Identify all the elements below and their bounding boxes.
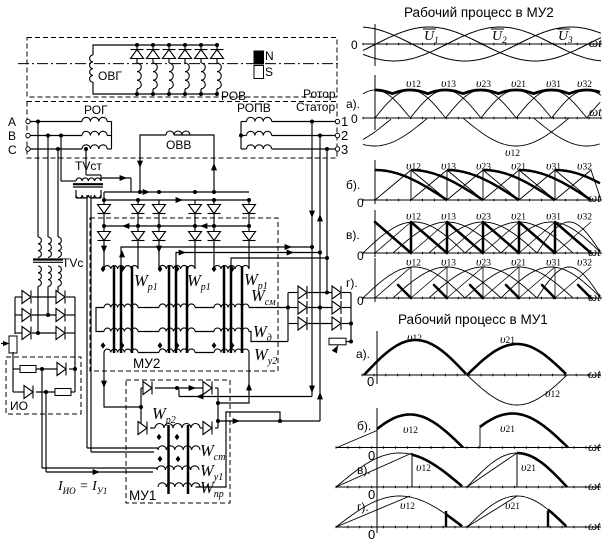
- diode row2 VD26: [248, 226, 250, 232]
- MU1 dashed enclosure: [126, 380, 230, 503]
- svg-text:1: 1: [341, 114, 348, 129]
- upper bus wire 1: [104, 191, 249, 193]
- chart a) thick envelope: [375, 90, 600, 94]
- right bridge rails: [287, 293, 289, 342]
- right bridge diode VR2b: [332, 301, 341, 314]
- tap wire 2 down: [318, 134, 322, 138]
- upper bus wire 2: [104, 199, 249, 201]
- svg-text:ωt: ωt: [588, 439, 601, 454]
- IO top row wire: [13, 368, 20, 370]
- svg-text:Ротор: Ротор: [303, 87, 336, 101]
- ROG star-point rail: [111, 122, 113, 150]
- svg-text:3: 3: [341, 142, 348, 157]
- left bridge diode VL1a: [22, 291, 31, 304]
- chart v) thin sine humps: [363, 222, 465, 253]
- svg-text:г).: г).: [346, 276, 358, 290]
- MU1 g) thin chord 2: [467, 496, 517, 527]
- MU2 core bars: [113, 266, 116, 353]
- Wp2 diode top-left: [143, 382, 152, 395]
- svg-text:0: 0: [351, 112, 358, 126]
- svg-text:ωt: ωt: [588, 190, 601, 205]
- diode row1 VD15: [213, 200, 215, 205]
- left bridge row 1 wires: [15, 296, 22, 298]
- MU1 b) vertical thin line: [479, 425, 481, 448]
- magnet pole N (filled): [254, 51, 264, 64]
- MU1 chart a) axes: [362, 374, 601, 376]
- MU1 v) vertical line 2: [516, 453, 518, 487]
- diode row2 VD23: [158, 226, 160, 232]
- Wp2 diode top-right: [203, 382, 212, 395]
- svg-text:ωt: ωt: [588, 366, 601, 381]
- chart1 axes: [363, 43, 601, 45]
- IO diode VD-io2: [24, 386, 33, 399]
- Wp2 bottom wire: [138, 427, 141, 429]
- TVst secondary lead wires down: [86, 195, 88, 448]
- left rectifier bridge rails: [14, 297, 16, 333]
- svg-text:0: 0: [357, 196, 364, 210]
- svg-text:ωt: ωt: [588, 478, 601, 493]
- svg-text:0: 0: [367, 374, 374, 389]
- svg-text:TVc: TVc: [62, 256, 83, 270]
- terminal 2: [335, 133, 339, 137]
- svg-text:В: В: [8, 129, 16, 143]
- MU2 working winding row Wp1: [104, 266, 138, 269]
- MU1 chart g) axes: [336, 526, 601, 528]
- chart v) thick sawtooth: [375, 222, 411, 253]
- MU1 winding Wy1: [157, 466, 199, 470]
- IO bottom row wire: [13, 391, 24, 393]
- ROG phase coil 3: [82, 145, 107, 149]
- Wy2 polarity diamonds: [101, 342, 106, 349]
- right bridge diode VR3a: [298, 317, 307, 330]
- svg-text:Рабочий процесс в МУ1: Рабочий процесс в МУ1: [398, 312, 548, 327]
- DC return wire from stator phase 1: [179, 396, 312, 398]
- svg-text:ωt: ωt: [588, 518, 601, 533]
- Wy2 left lead down: [104, 353, 141, 408]
- MU1 v) thin hump 2: [467, 453, 567, 487]
- chart1 sine U3: [363, 27, 601, 61]
- svg-text:в).: в).: [346, 228, 360, 242]
- ROG phase coil 2: [82, 131, 107, 135]
- right bridge diode VR1a: [298, 286, 307, 299]
- right bridge row 2 wires: [288, 307, 298, 309]
- MU1 a) thick hump v21: [467, 344, 566, 375]
- left bridge diode VL1b: [56, 291, 65, 304]
- right bridge diode VR1b: [332, 286, 341, 299]
- tap C to TVc: [56, 147, 60, 151]
- MU1 v) thick descent 2: [517, 453, 567, 487]
- IO dashed enclosure: [6, 357, 81, 414]
- arrow on bus: [143, 189, 150, 195]
- phase wire A: [31, 121, 83, 123]
- load tap wires to stator: [121, 247, 312, 266]
- exciter winding OVV coil: [166, 131, 190, 135]
- Wp2 diode bottom-right: [203, 422, 212, 435]
- MU1 winding Wpr: [158, 483, 200, 487]
- diode row2 VD21: [103, 226, 105, 232]
- left bridge row 3 wires: [15, 332, 22, 334]
- chart g) axes: [363, 297, 601, 299]
- TVc primary coils: [38, 237, 41, 257]
- ROV winding coil 3: [168, 59, 170, 64]
- MU1 g) thin hump 1: [336, 496, 462, 527]
- MU1 winding Wst: [158, 446, 200, 450]
- MU1 g) thick wedge 2: [547, 511, 549, 527]
- arrow down to winding: [101, 246, 107, 253]
- MU1 chart v) axes: [336, 486, 601, 488]
- MU2 control winding row Wy2: [104, 349, 138, 352]
- chart b) thick arcs: [375, 170, 447, 200]
- AC feed wire to Wp2 right rail: [216, 419, 220, 423]
- Wsm left lead: [96, 308, 104, 332]
- diode row2 VD22: [137, 226, 139, 232]
- svg-text:РОГ: РОГ: [84, 103, 108, 117]
- tap wire 3 down: [325, 147, 329, 151]
- TVst secondary feed to Wst: [87, 447, 158, 449]
- left bridge diode VL3a: [22, 327, 31, 340]
- svg-text:0: 0: [357, 249, 364, 263]
- MU1 v) thin chord 1: [336, 453, 412, 487]
- chart a) negative tail of v23 at right: [534, 118, 600, 146]
- svg-text:а).: а).: [356, 347, 370, 361]
- svg-text:ОВГ: ОВГ: [98, 69, 122, 83]
- tap wire 1 down: [310, 120, 314, 124]
- svg-text:0: 0: [351, 38, 358, 52]
- Wsm right lead to right bridge: [249, 307, 288, 309]
- svg-text:ОВВ: ОВВ: [166, 138, 191, 152]
- svg-text:TVст: TVст: [75, 159, 102, 173]
- right bridge row 3 wires: [288, 323, 298, 325]
- chart v) thin rising lattice: [375, 222, 411, 253]
- right bridge row 1 wires: [288, 292, 298, 294]
- stator dashed enclosure: [27, 102, 337, 159]
- right potentiometer resistor: [329, 338, 346, 345]
- right rail down into IO: [74, 333, 76, 369]
- ROV winding coil 1: [136, 59, 138, 64]
- ROV bottom bus wire: [131, 93, 217, 95]
- TVc secondary leads: [37, 286, 39, 333]
- Wp2 winding coil: [150, 427, 155, 429]
- MU1 v) thin hump 1: [336, 453, 462, 487]
- MU2 dashed enclosure: [90, 218, 278, 371]
- chart g) thick segments: [398, 285, 411, 298]
- MU2 bias winding row Wsm: [104, 304, 138, 307]
- terminal 1: [335, 119, 339, 123]
- potentiometer: [9, 336, 17, 353]
- tap B to TVst: [59, 134, 63, 138]
- MU1 v) thick descent 1: [412, 455, 462, 487]
- diode row2 VD25: [213, 226, 215, 232]
- ROV diode VD1: [136, 45, 138, 49]
- ROPV phase coil 1: [247, 117, 272, 121]
- MU1 chart b) axes: [336, 447, 601, 449]
- MU1 core bars: [167, 425, 170, 494]
- svg-text:г).: г).: [357, 500, 369, 514]
- arrow up on OVV right lead: [211, 163, 217, 170]
- Wpr lead loop to right: [196, 412, 281, 487]
- tap B to TVc: [46, 134, 50, 138]
- IO output wires: [40, 367, 44, 371]
- ROV diode VD2: [152, 45, 154, 49]
- Wp2 right rail: [217, 388, 219, 428]
- svg-text:0: 0: [368, 527, 375, 542]
- MU2 damper winding row Wd: [104, 328, 138, 331]
- Wp2 polarity diamonds: [157, 434, 162, 441]
- ROV top bus wire: [131, 44, 217, 46]
- chart1 sine U1: [363, 27, 601, 61]
- ROV diode VD4: [184, 45, 186, 49]
- IO diode VD-io1: [57, 363, 66, 376]
- MU1 b) thick hump v12: [377, 415, 463, 448]
- chart v) axes: [363, 252, 601, 254]
- TVc secondary coils: [38, 266, 41, 286]
- diode row1 VD11: [103, 200, 105, 205]
- ROG phase coil 1: [82, 117, 107, 121]
- Wy1 polarity diamonds: [158, 456, 163, 463]
- right bridge phase dots: [325, 291, 329, 295]
- phase wire B: [31, 135, 83, 137]
- rotor dashed enclosure: [27, 38, 337, 98]
- svg-text:0: 0: [368, 487, 375, 502]
- arrow down on OVV left lead: [137, 161, 143, 168]
- chart g) thin lattice: [375, 267, 411, 298]
- chart b) thin lattice: [375, 170, 411, 200]
- tap A to TVc: [36, 120, 40, 124]
- MU1 v) thin chord 2: [467, 453, 517, 487]
- MU1 g) thick wedge 1: [445, 511, 447, 527]
- svg-text:ИО: ИО: [10, 399, 28, 413]
- chart b) axes: [363, 199, 601, 201]
- tap C to TVst: [84, 147, 88, 151]
- Wd right lead: [249, 332, 288, 342]
- svg-text:РОПВ: РОПВ: [237, 101, 271, 115]
- Wy2 right lead down to Wp2 rectifier: [218, 353, 249, 404]
- svg-text:2: 2: [341, 128, 348, 143]
- MU1 g) thin hump 2: [467, 496, 567, 527]
- diode row1 VD13: [158, 200, 160, 205]
- arrow right on TVst output wire: [101, 177, 131, 179]
- svg-text:N: N: [265, 49, 274, 63]
- MU2 mid bus: [104, 225, 249, 227]
- Wp1 polarity diamonds: [101, 266, 106, 273]
- left bridge diode VL2a: [22, 309, 31, 322]
- IO resistor R1: [20, 366, 36, 373]
- right bridge diode VR2a: [298, 301, 307, 314]
- svg-text:а).: а).: [346, 97, 360, 111]
- Wp2 diode bottom-left: [138, 422, 147, 435]
- MU1 b) thin rising line: [337, 431, 377, 448]
- field winding OVG coil: [90, 55, 93, 82]
- TVst core: [73, 183, 103, 185]
- Wp2 left rail: [140, 388, 142, 428]
- ROV diode VD3: [168, 45, 170, 49]
- diode row1 VD16: [248, 200, 250, 205]
- chart a) thin line voltage sines: [363, 90, 410, 117]
- svg-text:Рабочий процесс в МУ2: Рабочий процесс в МУ2: [404, 5, 554, 20]
- ROV diode VD5: [200, 45, 202, 49]
- chart1 sine U2: [363, 27, 601, 61]
- diode row1 VD14: [194, 200, 196, 205]
- right bridge diode VR3b: [332, 317, 341, 330]
- left bridge row 2 wires: [15, 314, 22, 316]
- ROV diode VD6: [216, 45, 218, 49]
- svg-text:А: А: [8, 115, 16, 129]
- MU1 v) vertical line 1: [411, 453, 413, 487]
- chart a) negative half of v12: [463, 118, 569, 146]
- terminal 3: [335, 147, 339, 151]
- svg-text:МУ2: МУ2: [133, 356, 160, 371]
- potentiometer wire down: [14, 333, 16, 334]
- machine axis dash-dot line: [18, 63, 341, 65]
- ROV winding coil 2: [152, 59, 154, 64]
- Wp2 bridge top wire: [141, 387, 143, 389]
- ROPV phase coil 3: [247, 145, 272, 149]
- left bridge diode VL2b: [56, 309, 65, 322]
- left bridge diode VL3b: [56, 327, 65, 340]
- IO resistor R2: [55, 389, 71, 396]
- svg-text:0: 0: [357, 294, 364, 308]
- ROV winding coil 4: [184, 59, 186, 64]
- MU1 g) thin chord 1: [336, 496, 410, 527]
- ROV winding coil 6: [216, 59, 218, 64]
- MU1 b) thick hump v21: [480, 414, 568, 448]
- ROV winding coil 5: [200, 59, 202, 64]
- svg-text:ωt: ωt: [589, 104, 602, 119]
- chart a) axes: [363, 117, 601, 119]
- MU1 a) thick hump v12: [364, 340, 466, 375]
- diode row1 VD12: [137, 200, 139, 205]
- svg-text:МУ1: МУ1: [129, 488, 156, 503]
- TVc core: [33, 258, 63, 260]
- stator wires pass down: [311, 247, 313, 397]
- TVst primary coil: [76, 178, 101, 181]
- TVst secondary coil: [76, 195, 101, 198]
- ROPV neutral rail: [240, 122, 242, 150]
- phase wire C: [31, 148, 83, 150]
- svg-text:S: S: [265, 65, 273, 79]
- chart g) thin sine humps: [363, 267, 465, 298]
- ROPV phase coil 2: [247, 131, 272, 135]
- svg-text:б).: б).: [357, 419, 371, 433]
- svg-text:б).: б).: [346, 178, 360, 192]
- svg-text:С: С: [8, 143, 17, 157]
- MU1 a) thin negative v12: [467, 375, 567, 405]
- svg-text:Статор: Статор: [296, 100, 335, 114]
- diode row2 VD24: [194, 226, 196, 232]
- chart a) negative tails at left: [363, 119, 391, 139]
- magnet pole S (open): [254, 66, 264, 79]
